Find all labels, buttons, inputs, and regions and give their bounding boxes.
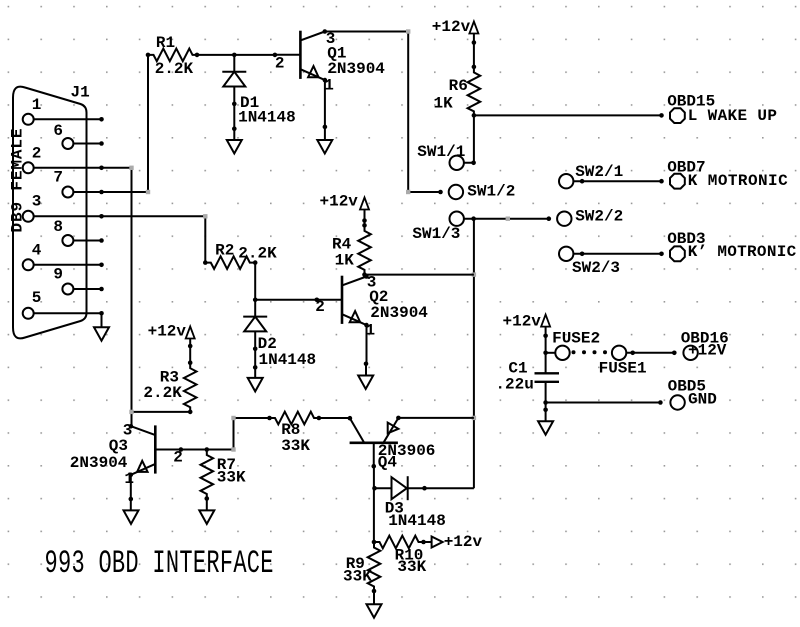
switch contact SW2/1 (559, 163, 623, 188)
svg-text:+12v: +12v (432, 18, 471, 36)
wire R1 to Q1 base (197, 53, 277, 58)
svg-text:R6: R6 (449, 77, 468, 95)
power +12v right of R10 (424, 533, 483, 551)
wire C1 to OBD5 (543, 400, 662, 405)
switch contact SW1/2 (449, 182, 516, 200)
resistor R1 2.2K (146, 34, 200, 78)
wire node bus SW1/3 down to D3 (472, 219, 476, 489)
svg-text:7: 7 (53, 169, 63, 187)
J1 pin 5 (23, 289, 104, 319)
transistor Q2 2N3904 (315, 274, 428, 340)
wire pin7 to R1 (102, 55, 151, 194)
svg-text:FUSE1: FUSE1 (599, 359, 647, 377)
svg-text:Q3: Q3 (109, 437, 128, 455)
wire SW2/3 to OBD3 (573, 252, 663, 257)
svg-text:1N4148: 1N4148 (259, 351, 317, 369)
svg-text:K MOTRONIC: K MOTRONIC (688, 172, 788, 190)
svg-text:+12v: +12v (444, 533, 483, 551)
J1 pin 8 (53, 218, 103, 246)
pad OBD7 K MOTRONIC (667, 158, 788, 190)
ground Q2 (358, 364, 373, 389)
svg-text:33K: 33K (397, 558, 426, 576)
svg-text:33K: 33K (343, 568, 372, 586)
svg-text:GND: GND (688, 391, 717, 409)
J1 pin 1 (23, 96, 104, 125)
svg-text:33K: 33K (217, 468, 246, 486)
svg-text:2: 2 (32, 145, 42, 163)
ground D1 (227, 104, 242, 154)
resistor R2 2.2K (203, 242, 277, 269)
svg-text:1: 1 (124, 470, 134, 488)
transistor Q1 2N3904 (275, 29, 386, 94)
ground Q1 (317, 127, 332, 154)
diode D3 1N4148 (375, 476, 446, 530)
wire pin3 to R2 (102, 214, 208, 263)
wire SW2/1 to OBD7 (573, 179, 663, 184)
svg-text:.22u: .22u (495, 376, 533, 394)
svg-text:C1: C1 (508, 359, 527, 377)
svg-text:SW1/3: SW1/3 (412, 225, 460, 243)
svg-text:SW1/1: SW1/1 (417, 143, 465, 161)
wire R2 to Q2 base (253, 263, 319, 303)
wire SW1/3 to SW2/2 (464, 216, 551, 221)
svg-text:1: 1 (32, 96, 42, 114)
svg-text:4: 4 (32, 242, 42, 260)
wire R8 to Q4 collector (319, 416, 352, 421)
J1 pin 4 (23, 242, 104, 271)
svg-text:R2: R2 (215, 242, 234, 260)
svg-text:+12v: +12v (320, 193, 359, 211)
fuse FUSE1 (599, 346, 647, 378)
resistor R6 1K (434, 65, 481, 118)
J1 pin 6 (53, 122, 103, 149)
svg-text:2: 2 (173, 448, 183, 466)
wire Q1 collector to SW1/2 (325, 29, 443, 194)
connector J1 DB9 female outline (9, 84, 90, 339)
svg-text:8: 8 (53, 218, 63, 236)
svg-text:SW2/2: SW2/2 (575, 207, 623, 225)
switch contact SW2/2 (557, 207, 623, 226)
svg-text:+12V: +12V (688, 342, 727, 360)
J1 pin 7 (53, 169, 103, 198)
J1 pin 9 (53, 266, 103, 295)
svg-text:FUSE2: FUSE2 (552, 329, 600, 347)
svg-text:J1: J1 (71, 84, 90, 102)
wire Q3 base to R7 and R8 (181, 416, 272, 452)
wire Q1 emitter to ground (323, 80, 328, 129)
pad OBD5 GND (668, 378, 717, 410)
svg-text:+12v: +12v (503, 313, 542, 331)
resistor R9 33K (343, 542, 380, 593)
wire Q3 emitter to ground (129, 475, 134, 502)
svg-text:Q4: Q4 (378, 454, 398, 472)
ground R7 (199, 499, 214, 524)
wire Q2 emitter to ground (364, 325, 369, 366)
pad OBD15 L WAKE UP (667, 93, 777, 126)
resistor R7 33K (201, 450, 247, 501)
svg-text:2.2K: 2.2K (238, 244, 277, 262)
wire R6 to SW1/1 (464, 115, 476, 165)
svg-text:1N4148: 1N4148 (238, 109, 296, 127)
svg-text:2.2K: 2.2K (155, 60, 194, 78)
wire D3 to bus corner (425, 487, 474, 489)
wire Q4 emitter to bus (398, 417, 474, 419)
svg-text:SW2/1: SW2/1 (575, 163, 623, 181)
svg-text:L WAKE UP: L WAKE UP (688, 107, 777, 125)
wire Q2 collector to bus (366, 274, 474, 276)
svg-text:3: 3 (32, 193, 42, 211)
wire R6 to OBD15 (474, 113, 664, 118)
svg-text:9: 9 (53, 266, 63, 284)
transistor Q3 2N3904 (70, 421, 183, 488)
svg-text:33K: 33K (281, 437, 310, 455)
diode D2 1N4148 (243, 300, 316, 369)
title 993 OBD INTERFACE (45, 546, 274, 582)
resistor R8 33K (270, 412, 322, 455)
svg-text:2: 2 (315, 298, 325, 316)
svg-text:+12v: +12v (148, 323, 187, 341)
svg-text:K’ MOTRONIC: K’ MOTRONIC (688, 243, 797, 261)
resistor R10 33K (374, 536, 427, 577)
svg-text:6: 6 (53, 122, 63, 140)
resistor R4 1K (332, 223, 371, 277)
svg-text:R1: R1 (156, 34, 175, 52)
svg-text:2: 2 (275, 55, 285, 73)
pad OBD3 K' MOTRONIC (667, 230, 796, 261)
ground R9 (367, 591, 382, 618)
svg-text:DB9 FEMALE: DB9 FEMALE (9, 129, 27, 233)
diode D1 1N4148 (222, 55, 295, 127)
svg-text:1K: 1K (434, 95, 454, 113)
transistor Q4 2N3906 (350, 416, 436, 472)
wire R3 to Q3 collector (129, 410, 190, 427)
ground D2 (248, 349, 263, 392)
wire FUSE1 to OBD16 (626, 351, 676, 356)
svg-text:5: 5 (32, 289, 42, 307)
capacitor C1 .22u (495, 359, 559, 402)
J1 pin 3 (23, 193, 104, 222)
power +12v above R4 (320, 193, 370, 226)
power +12v top right (432, 18, 479, 67)
resistor R3 2.2K (143, 360, 196, 414)
switch contact SW1/1 (417, 143, 465, 170)
svg-text:1K: 1K (335, 251, 355, 269)
pad OBD16 +12V (681, 329, 729, 360)
switch contact SW2/3 (559, 247, 620, 278)
wire pin2 riser (102, 166, 134, 412)
J1 pin 2 (23, 145, 104, 174)
power +12v fuse area (503, 313, 551, 374)
svg-text:SW2/3: SW2/3 (572, 259, 620, 277)
svg-text:SW1/2: SW1/2 (467, 182, 515, 200)
svg-text:2N3904: 2N3904 (370, 304, 428, 322)
svg-text:2N3904: 2N3904 (327, 60, 385, 78)
wire Q4 base down to R9 R10 (372, 466, 377, 544)
dotted link FUSE2 FUSE1 (572, 350, 608, 354)
svg-text:993 OBD INTERFACE: 993 OBD INTERFACE (45, 546, 274, 582)
switch contact SW1/3 (412, 212, 464, 244)
ground J1 pin5 (94, 313, 109, 340)
svg-text:2.2K: 2.2K (143, 384, 182, 402)
ground C1 (538, 403, 553, 435)
svg-text:2N3904: 2N3904 (70, 454, 128, 472)
fuse FUSE2 (546, 329, 601, 360)
svg-text:1N4148: 1N4148 (388, 512, 446, 530)
ground Q3 (124, 499, 139, 524)
power +12v left (148, 323, 195, 363)
